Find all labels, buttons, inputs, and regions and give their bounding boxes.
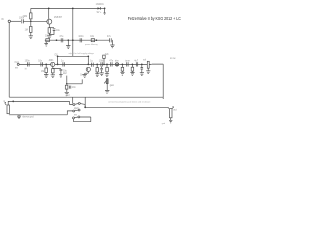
svg-text:10u: 10u	[56, 30, 61, 32]
resistor R11	[121, 67, 124, 71]
node R8 foot	[103, 64, 105, 66]
wire VR1 gnd	[106, 84, 108, 90]
svg-text:47u: 47u	[59, 36, 64, 38]
svg-text:gain: gain	[110, 85, 115, 87]
resistor R2	[30, 26, 32, 32]
svg-text:connect board gnd to jack slee: connect board gnd to jack sleeve and enc…	[108, 100, 151, 103]
node N4	[132, 64, 134, 66]
diode D1	[98, 7, 101, 10]
svg-text:100n: 100n	[99, 60, 105, 62]
svg-text:vol: vol	[143, 59, 146, 61]
capacitor C9	[92, 63, 94, 67]
capacitor C13	[136, 62, 137, 66]
wire drain2 drop	[87, 56, 89, 64]
wire N1 down	[96, 64, 98, 67]
node gate2	[45, 64, 47, 66]
node W1 left	[57, 55, 59, 57]
svg-text:1M: 1M	[41, 71, 44, 73]
capacitor C11	[100, 68, 103, 69]
capacitor C2	[53, 29, 56, 31]
ground G5	[110, 45, 114, 48]
wire R11 gnd	[121, 71, 123, 72]
capacitor C12	[111, 62, 112, 66]
wire C8 gnd	[60, 71, 62, 75]
svg-text:1N4001: 1N4001	[96, 4, 105, 6]
potentiometer VR1	[104, 78, 108, 84]
resistor R6	[45, 68, 48, 73]
resistor R8 above	[103, 55, 106, 58]
capacitor C10	[101, 62, 102, 66]
wire source Q2	[53, 67, 61, 69]
ground G9	[83, 75, 87, 78]
wire left rail	[8, 23, 10, 98]
wire drain Q1	[48, 8, 50, 19]
node out junction	[84, 106, 86, 108]
switch SW1	[73, 102, 81, 118]
wire R12 gnd	[131, 71, 133, 72]
capacitor C8	[60, 69, 63, 70]
ground G19	[65, 92, 69, 95]
ground G6	[44, 75, 48, 78]
ground G12	[105, 74, 109, 77]
wire C5 down	[111, 40, 114, 45]
wire sw row3 loop	[74, 117, 91, 122]
ground G18	[169, 120, 172, 123]
node N5	[141, 64, 143, 66]
node drain2	[57, 64, 59, 66]
svg-text:10n: 10n	[38, 60, 43, 62]
svg-text:100n: 100n	[25, 60, 31, 62]
wire V+ drop	[72, 8, 74, 56]
wire J2 sleeve	[170, 118, 172, 120]
ground G8	[51, 75, 55, 78]
node rail junction	[72, 8, 74, 10]
wire gate2 down	[45, 64, 47, 68]
capacitor C5	[110, 38, 112, 42]
wire gate node down	[30, 21, 32, 26]
svg-text:J201: J201	[49, 60, 55, 62]
wire input to C1	[11, 20, 22, 22]
transistor Q1	[47, 19, 52, 24]
ground G15	[140, 73, 144, 76]
wire sub-branch up	[66, 76, 68, 84]
node source	[49, 27, 54, 29]
svg-text:1u: 1u	[90, 60, 93, 62]
wire row mid	[55, 63, 89, 65]
wire wiper out	[152, 64, 163, 97]
wire gate node up	[30, 19, 32, 21]
svg-text:sw: sw	[74, 115, 77, 117]
wire N4 down	[131, 64, 133, 67]
resistor R5	[91, 39, 94, 42]
resistor R10	[106, 67, 109, 71]
wire sw row1 to out	[80, 104, 85, 108]
wire R6 gnd	[45, 73, 47, 75]
svg-text:47u: 47u	[107, 36, 112, 38]
transistor Q2	[51, 62, 55, 66]
ground G11	[100, 73, 104, 76]
wire C14 gnd	[141, 69, 143, 73]
node jack tip	[12, 101, 14, 103]
capacitor C16	[127, 62, 128, 66]
resistor R4	[46, 39, 50, 42]
node N1	[96, 64, 98, 66]
wire N3 down	[121, 64, 123, 67]
ground G17	[17, 115, 21, 119]
svg-text:from: from	[15, 61, 20, 64]
wire R7 gnd	[52, 73, 54, 75]
wire top rail	[31, 7, 101, 9]
resistor R9	[96, 68, 99, 72]
svg-text:9V +: 9V +	[97, 12, 102, 14]
node IN pad	[8, 20, 10, 22]
svg-text:gnd: gnd	[162, 123, 165, 125]
resistor R7	[52, 69, 55, 73]
capacitor C1	[22, 19, 24, 23]
wire signal row2	[88, 63, 147, 65]
node sub-branch	[66, 83, 68, 85]
ground G3	[44, 42, 48, 46]
wire bus end tick	[162, 97, 164, 99]
node B3	[72, 39, 74, 41]
svg-text:in: in	[25, 68, 28, 70]
svg-text:dpdt: dpdt	[74, 107, 79, 110]
wire ground bus bottom	[9, 96, 163, 98]
svg-text:2N5457: 2N5457	[54, 17, 63, 19]
ground G16	[146, 71, 150, 74]
wire R1 to rail	[30, 8, 32, 13]
wire B2 down	[67, 40, 69, 45]
wire bus drop to out	[84, 97, 86, 107]
svg-text:FetzerValve II by KSG 2012 + L: FetzerValve II by KSG 2012 + LC	[128, 16, 181, 21]
node drain junction	[48, 8, 50, 10]
ground G7	[59, 75, 63, 78]
svg-text:sleeve gnd: sleeve gnd	[22, 116, 34, 118]
ground G10	[95, 74, 99, 77]
svg-text:10k: 10k	[90, 36, 95, 38]
svg-text:100R: 100R	[45, 36, 51, 38]
svg-text:out: out	[173, 109, 177, 112]
wire N2 down	[106, 64, 108, 67]
wire R8 stub	[103, 58, 105, 64]
svg-text:10n: 10n	[72, 87, 77, 89]
wire R2 to ground	[30, 32, 32, 35]
wire sleeve run	[9, 111, 73, 115]
node B1	[56, 39, 58, 41]
capacitor C6	[28, 62, 30, 66]
wire tip run	[8, 101, 73, 105]
node row2 left	[87, 64, 89, 66]
capacitor C7	[41, 62, 43, 66]
node gate junction	[30, 21, 32, 23]
wire drain Q2	[57, 56, 59, 64]
svg-text:tone: tone	[125, 59, 130, 62]
wire R3 to ground	[48, 33, 50, 36]
node B4	[96, 39, 98, 41]
wire diode to battery	[101, 7, 105, 9]
wire sub-branch arm	[67, 79, 82, 83]
capacitor C15	[65, 85, 71, 89]
ground G4	[66, 46, 70, 49]
wire VR2 gnd stub	[147, 68, 149, 71]
svg-text:power filtering: power filtering	[85, 43, 97, 46]
svg-text:2k2: 2k2	[63, 73, 67, 75]
wire C2 bottom	[49, 30, 54, 34]
wire border drop	[72, 97, 74, 103]
node B2	[67, 39, 69, 41]
jack J1 input	[5, 103, 10, 114]
svg-text:100n: 100n	[78, 36, 84, 38]
potentiometer VR2 volume	[147, 61, 152, 68]
wire out run	[85, 107, 168, 108]
svg-text:47n: 47n	[109, 60, 114, 62]
capacitor C8h	[63, 62, 64, 66]
trimmer TR1	[115, 63, 118, 66]
svg-text:4u7: 4u7	[134, 60, 139, 62]
node N2	[106, 64, 108, 66]
jack J2 output	[170, 107, 174, 118]
ground G13	[120, 72, 124, 75]
capacitor C14	[141, 68, 144, 69]
wire drain bus W1	[58, 55, 89, 57]
transistor Q3	[86, 67, 90, 71]
ground G1	[29, 36, 33, 39]
wire R9 gnd	[96, 72, 98, 74]
battery BT1	[103, 8, 105, 14]
ground G12b	[105, 90, 109, 93]
wire filter rail	[45, 39, 110, 41]
ground G14	[130, 73, 134, 76]
capacitor C4	[80, 38, 82, 42]
wire C1 to gate	[23, 20, 46, 22]
svg-text:22k: 22k	[105, 54, 110, 56]
node battery junction	[104, 8, 106, 10]
svg-text:sw: sw	[15, 67, 18, 69]
wire N5 down	[141, 64, 143, 67]
wire source Q3	[85, 72, 89, 75]
node board pad	[17, 63, 19, 65]
svg-text:trim: trim	[115, 59, 119, 62]
node N3	[122, 64, 124, 66]
svg-text:IN: IN	[1, 19, 4, 21]
wire signal row left	[19, 63, 50, 65]
svg-text:2M2: 2M2	[23, 16, 28, 18]
wire C15 gnd	[66, 89, 68, 92]
resistor R3	[48, 28, 50, 34]
svg-text:to sw: to sw	[170, 57, 176, 60]
node W1 right	[87, 55, 89, 57]
ground G2	[47, 36, 51, 39]
wire R10 down	[106, 72, 108, 74]
svg-text:adjust for half supply voltage: adjust for half supply voltage	[69, 52, 95, 55]
wire C10b down	[101, 67, 103, 69]
svg-text:1M: 1M	[25, 30, 28, 32]
wire source Q1	[48, 24, 50, 27]
svg-text:1u: 1u	[61, 60, 64, 62]
capacitor C3	[61, 38, 63, 42]
wire C11 gnd	[101, 70, 103, 73]
resistor R1	[30, 13, 32, 19]
resistor R12	[131, 67, 134, 71]
